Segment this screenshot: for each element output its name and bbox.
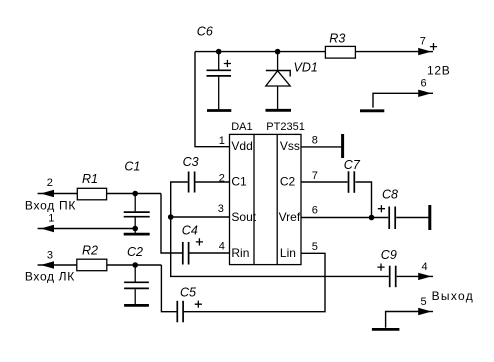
- wire pin3 node down to output row: [171, 217, 389, 276]
- wire arrow5 to ground: [386, 312, 420, 328]
- wire C8 to terminal bar: [396, 217, 429, 219]
- svg-text:Lin: Lin: [280, 246, 296, 260]
- wire pin7 to C7: [301, 181, 348, 183]
- terminal bar right of C8: [428, 205, 431, 230]
- svg-text:5: 5: [312, 241, 318, 253]
- wire lead arrow6: [420, 92, 433, 94]
- wire pin2 to C3: [195, 181, 229, 183]
- wire lead arrow5: [420, 311, 433, 313]
- input label Вход ЛК: [25, 269, 74, 283]
- wire arrow1 to C1 bottom: [38, 228, 136, 230]
- svg-text:12В: 12В: [427, 64, 450, 78]
- capacitor C2: [124, 245, 149, 304]
- capacitor C7: [344, 158, 361, 193]
- node junction on rail at VD1: [275, 49, 281, 55]
- svg-text:VD1: VD1: [294, 61, 318, 75]
- capacitor C5: [177, 285, 202, 322]
- svg-text:1: 1: [48, 213, 54, 225]
- svg-text:C3: C3: [183, 155, 199, 169]
- wire arrow3 to R2: [38, 264, 77, 266]
- zener diode VD1: [266, 52, 318, 110]
- svg-text:3: 3: [218, 203, 224, 215]
- svg-text:C9: C9: [381, 248, 397, 262]
- svg-text:5: 5: [421, 296, 427, 308]
- resistor R3: [325, 32, 355, 59]
- terminal arrow 4 (output): [418, 261, 431, 280]
- IC DA1 PT2351: [230, 121, 305, 265]
- capacitor C1: [124, 159, 150, 233]
- node junction R1/C1: [132, 191, 138, 197]
- ground bar under C6: [207, 109, 231, 112]
- pin number 7: [312, 170, 318, 182]
- terminal bar pin 8: [341, 134, 344, 158]
- pin number 5: [312, 241, 318, 253]
- terminal arrow 7 (+12V): [418, 36, 450, 78]
- svg-text:C2: C2: [127, 245, 143, 259]
- wire C4 to pin 4: [189, 252, 229, 254]
- svg-text:C2: C2: [280, 175, 296, 189]
- resistor R2: [77, 244, 107, 271]
- terminal arrow 5 (output ground): [418, 296, 431, 315]
- svg-text:2: 2: [219, 173, 225, 185]
- resistor R1: [77, 172, 106, 200]
- wire C3 left to pin3 node: [171, 182, 188, 217]
- pin number 8: [312, 135, 318, 147]
- pin number 3: [218, 203, 224, 215]
- svg-text:Вход ПК: Вход ПК: [25, 199, 76, 213]
- wire R2 to node: [107, 264, 161, 266]
- wire pin6 to C8: [301, 217, 388, 219]
- svg-text:DA1: DA1: [231, 121, 252, 133]
- svg-text:7: 7: [420, 36, 426, 48]
- svg-text:6: 6: [312, 204, 318, 216]
- node junction R2/C2: [132, 262, 138, 268]
- capacitor C4: [182, 223, 203, 264]
- ground bar under C1: [124, 233, 150, 236]
- svg-text:Вход ЛК: Вход ЛК: [25, 269, 74, 283]
- input label Вход ПК: [25, 199, 76, 213]
- capacitor C6: [197, 24, 231, 109]
- svg-text:C6: C6: [197, 24, 213, 38]
- svg-text:3: 3: [47, 250, 53, 262]
- wire pin6 terminal to ground: [373, 93, 420, 107]
- wire node down to C4 row: [161, 194, 182, 254]
- svg-text:4: 4: [219, 240, 225, 252]
- node junction on rail at C6: [216, 49, 222, 55]
- wire pin3 to node: [171, 216, 230, 218]
- capacitor C9: [377, 248, 396, 287]
- wire top rail right of R3: [355, 51, 420, 53]
- svg-text:4: 4: [422, 261, 428, 273]
- svg-text:Sout: Sout: [231, 210, 256, 224]
- wire rail corner down to pin 1: [195, 52, 230, 147]
- svg-text:Vss: Vss: [280, 139, 300, 153]
- wire pin8 to ground bar: [301, 146, 342, 148]
- node junction C7/pin6: [369, 215, 375, 221]
- node junction pin3/C3: [168, 214, 174, 220]
- wire top rail left: [195, 51, 325, 53]
- ground bar for pin 5: [372, 328, 400, 331]
- svg-text:C7: C7: [344, 158, 361, 172]
- svg-text:C8: C8: [382, 187, 398, 201]
- terminal arrow 6 (ground): [418, 78, 431, 98]
- svg-text:1: 1: [219, 135, 225, 147]
- svg-text:R3: R3: [329, 32, 345, 46]
- svg-text:7: 7: [312, 170, 318, 182]
- svg-text:R1: R1: [82, 172, 98, 186]
- terminal arrow 1: [41, 213, 55, 233]
- capacitor C8: [378, 187, 398, 229]
- svg-text:C4: C4: [182, 223, 198, 237]
- svg-text:PT2351: PT2351: [266, 121, 305, 133]
- svg-text:Rin: Rin: [231, 246, 249, 260]
- ground bar under VD1: [266, 109, 292, 112]
- svg-text:Vdd: Vdd: [231, 139, 252, 153]
- terminal arrow 2: [41, 177, 54, 197]
- svg-text:Выход: Выход: [432, 289, 473, 303]
- wire C5 to pin 5: [184, 253, 325, 311]
- svg-text:6: 6: [421, 78, 427, 90]
- svg-text:2: 2: [47, 177, 53, 189]
- capacitor C3: [183, 155, 199, 193]
- pin number 1: [219, 135, 225, 147]
- svg-text:Vref: Vref: [279, 210, 301, 224]
- output label Выход: [432, 289, 473, 303]
- wire node down to C5 row: [161, 265, 176, 312]
- svg-text:C1: C1: [124, 159, 140, 173]
- wire R1 to node: [107, 193, 161, 195]
- svg-text:R2: R2: [82, 244, 98, 258]
- ground bar under C2: [124, 304, 149, 307]
- wire C7 to pin6 wire: [356, 182, 372, 218]
- pin number 6: [312, 204, 318, 216]
- terminal arrow 3: [41, 250, 54, 269]
- svg-text:8: 8: [312, 135, 318, 147]
- ground bar for pin 6: [360, 109, 384, 112]
- svg-text:C1: C1: [231, 175, 247, 189]
- pin number 4: [219, 240, 225, 252]
- node junction wire1/C1: [132, 226, 138, 232]
- pin number 2: [219, 173, 225, 185]
- wire arrow2 to R1: [38, 193, 78, 195]
- wire C9 to arrow 4: [397, 275, 433, 277]
- wire lead arrow7: [420, 51, 433, 53]
- svg-text:C5: C5: [180, 285, 196, 299]
